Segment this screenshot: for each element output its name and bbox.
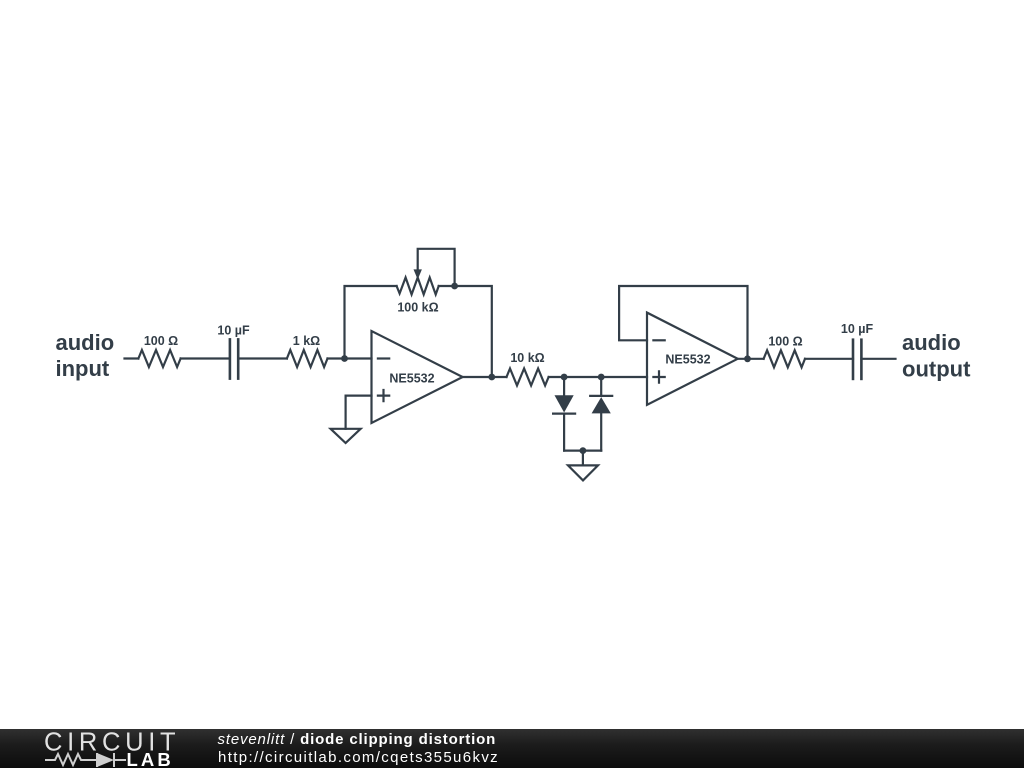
footer bar — [0, 729, 1024, 768]
wire R3 to U2 non-inverting input — [549, 376, 647, 378]
resistor R2 1 kΩ — [287, 334, 328, 367]
wire U1 output to R3 — [463, 376, 507, 378]
svg-text:NE5532: NE5532 — [389, 371, 434, 385]
diode D1 — [553, 377, 575, 451]
ground symbol G1 — [331, 429, 361, 443]
svg-text:100 kΩ: 100 kΩ — [397, 300, 438, 314]
node junction U1 output / feedback — [488, 374, 495, 381]
capacitor C2 10 µF — [841, 322, 874, 379]
wire U2 feedback loop — [619, 286, 747, 359]
wire C1 to R2 — [238, 357, 287, 359]
wire diode bottom rail — [564, 450, 601, 452]
svg-text:audio: audio — [56, 330, 115, 355]
op-amp U1 NE5532 — [372, 331, 463, 423]
node junction diode rail to ground — [580, 447, 587, 454]
node junction pot wiper tap — [451, 283, 458, 290]
resistor R3 10 kΩ — [507, 351, 549, 386]
wire U1 non-inverting input to ground — [346, 396, 372, 429]
footer url line — [218, 749, 499, 766]
wire pot to feedback right riser — [439, 286, 492, 377]
wire C2 to output — [861, 358, 895, 360]
svg-text:1 kΩ: 1 kΩ — [293, 334, 320, 348]
logo resistor-diode glyph — [45, 753, 126, 767]
svg-text:input: input — [56, 356, 110, 381]
capacitor C1 10 µF — [217, 324, 250, 379]
resistor R1 100 Ω — [138, 334, 180, 367]
footer credit line — [218, 731, 497, 748]
svg-text:100 Ω: 100 Ω — [768, 334, 802, 348]
wire U2 output to R4 — [738, 358, 764, 360]
ground symbol G2 — [568, 465, 598, 480]
wire R2 to inverting input of U1 — [328, 357, 372, 359]
node label "audio input" — [56, 330, 115, 381]
wire input to R1 — [125, 357, 139, 359]
node label "audio output" — [902, 330, 971, 382]
potentiometer R5 100 kΩ — [397, 249, 455, 314]
svg-text:output: output — [902, 356, 971, 381]
svg-text:NE5532: NE5532 — [665, 353, 710, 367]
node junction diode D2 tap — [598, 374, 605, 381]
svg-text:10 kΩ: 10 kΩ — [510, 351, 544, 365]
wire R1 to C1 — [181, 357, 230, 359]
op-amp U2 NE5532 — [647, 313, 738, 405]
node junction at U1 inverting input — [341, 355, 348, 362]
node junction diode D1 tap — [561, 374, 568, 381]
wire R4 to C2 — [805, 358, 853, 360]
wire feedback left riser — [345, 286, 397, 359]
CircuitLab logo wordmark — [0, 729, 200, 768]
svg-text:LAB: LAB — [127, 749, 174, 768]
svg-text:100 Ω: 100 Ω — [144, 334, 178, 348]
diode D2 — [590, 377, 612, 451]
node junction U2 output / feedback — [744, 355, 751, 362]
wire rail to ground — [582, 451, 584, 466]
svg-text:10 µF: 10 µF — [217, 324, 250, 338]
resistor R4 100 Ω — [764, 334, 805, 367]
svg-text:audio: audio — [902, 330, 961, 355]
svg-text:10 µF: 10 µF — [841, 322, 874, 336]
